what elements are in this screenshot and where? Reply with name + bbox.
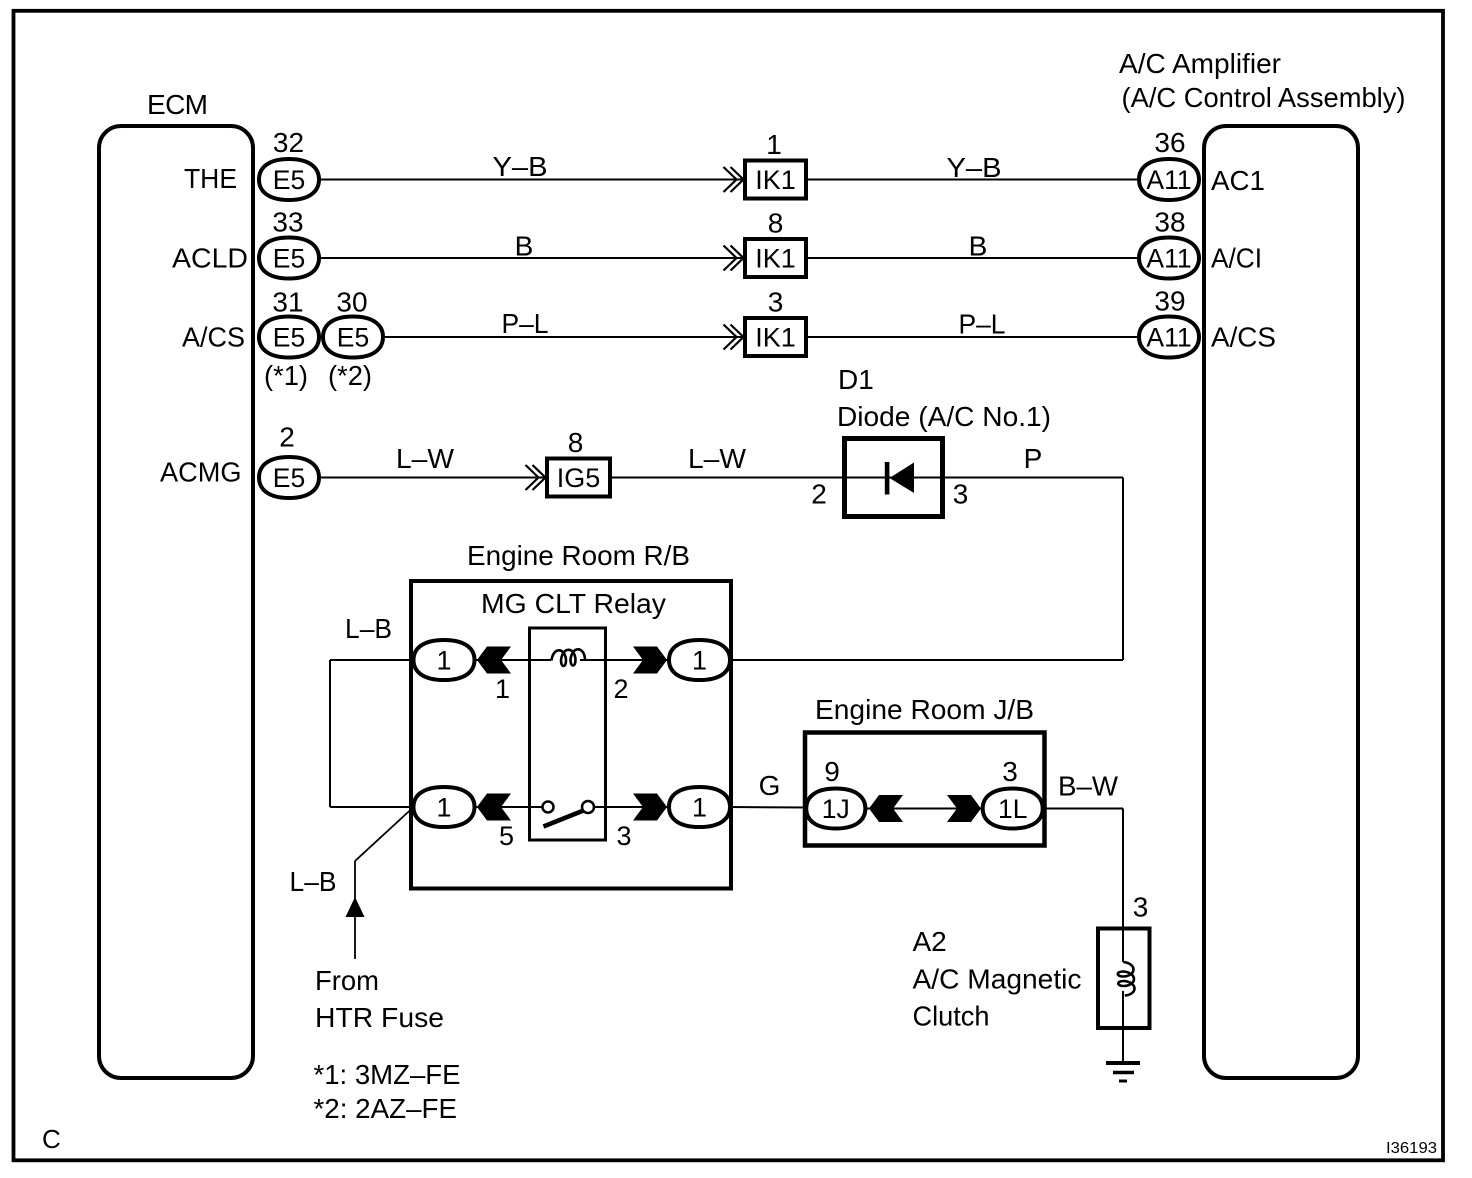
svg-text:33: 33 (272, 207, 303, 238)
wire IK1 to A11 row1 (806, 179, 1139, 181)
wire J/B internal 1J to 1L (865, 808, 983, 810)
relay oval 1 switch right (669, 787, 730, 827)
relay coil symbol (552, 649, 586, 666)
svg-text:A2: A2 (913, 926, 947, 957)
svg-text:HTR Fuse: HTR Fuse (315, 1002, 444, 1033)
svg-text:B: B (969, 231, 988, 262)
svg-text:Engine Room R/B: Engine Room R/B (467, 540, 690, 571)
svg-text:L–W: L–W (688, 443, 747, 474)
svg-text:31: 31 (272, 287, 303, 318)
solid arrow left (J/B, 1J side) (869, 795, 903, 822)
wire vertical P down to relay row (1122, 478, 1124, 661)
svg-text:36: 36 (1154, 127, 1185, 158)
svg-text:3: 3 (616, 821, 631, 851)
wire relay coil row internal left (474, 659, 551, 661)
svg-text:P–L: P–L (959, 309, 1006, 340)
svg-text:B: B (515, 231, 534, 262)
Engine Room J/B box (805, 733, 1045, 846)
svg-text:9: 9 (824, 756, 840, 787)
relay switch contact circle left (543, 802, 554, 813)
svg-text:38: 38 (1154, 207, 1185, 238)
svg-text:32: 32 (273, 127, 304, 158)
svg-text:3: 3 (768, 287, 784, 318)
svg-text:8: 8 (768, 208, 784, 239)
svg-text:A/CI: A/CI (1211, 243, 1262, 274)
svg-text:A11: A11 (1146, 165, 1191, 195)
svg-text:ECM: ECM (147, 89, 208, 120)
MG CLT relay inner box (530, 628, 606, 840)
relay oval 1 switch left (414, 787, 475, 827)
solid arrow right (relay switch row, pin 3) (633, 794, 667, 821)
wire diagonal from HTR fuse to relay pin 5 oval (355, 809, 412, 862)
connector E5 pin 33 oval (259, 238, 319, 279)
svg-text:Y–B: Y–B (493, 151, 548, 182)
wire THE to IK1 (319, 179, 745, 181)
svg-text:AC1: AC1 (1211, 165, 1265, 196)
chevron pair at IG5 (526, 465, 546, 490)
wire clutch coil to ground (1122, 991, 1124, 1063)
svg-text:Diode (A/C No.1): Diode (A/C No.1) (837, 401, 1051, 432)
svg-text:E5: E5 (273, 165, 305, 195)
svg-text:L–B: L–B (345, 613, 392, 644)
svg-text:2: 2 (613, 674, 628, 704)
ECM block (99, 126, 253, 1078)
svg-text:1J: 1J (822, 794, 850, 824)
J/B connector 1L oval (983, 789, 1043, 829)
svg-text:From: From (315, 965, 379, 996)
connector E5 pin 32 oval (259, 159, 319, 200)
arrow up from HTR fuse (346, 897, 365, 917)
svg-text:E5: E5 (273, 244, 305, 274)
wire L-B loop horizontal top (330, 659, 413, 661)
chevron pair at IK1 row1 (724, 167, 744, 192)
svg-text:IK1: IK1 (755, 323, 796, 353)
relay switch blade (544, 811, 584, 827)
svg-text:THE: THE (184, 163, 237, 194)
connector E5 pin 31 oval (259, 317, 319, 358)
J/B connector 1J oval (806, 789, 865, 829)
relay oval 1 coil right (669, 640, 730, 680)
svg-text:5: 5 (499, 821, 514, 851)
svg-text:B–W: B–W (1058, 771, 1119, 802)
relay switch contact circle right (582, 801, 594, 813)
wire relay coil row internal right (580, 659, 670, 661)
svg-text:*2: 2AZ–FE: *2: 2AZ–FE (314, 1093, 458, 1124)
diode symbol cathode bar (885, 462, 890, 495)
svg-text:A/CS: A/CS (1211, 322, 1276, 353)
wire vertical B-W down to clutch (1122, 809, 1124, 963)
svg-text:A11: A11 (1146, 244, 1191, 274)
wire relay to J/B (G) (729, 806, 806, 809)
chevron pair at IK1 row2 (724, 246, 744, 271)
svg-text:8: 8 (568, 427, 584, 458)
connector E5 pin 2 oval (259, 457, 319, 498)
svg-text:L–B: L–B (290, 866, 337, 897)
svg-text:30: 30 (336, 287, 367, 318)
svg-text:IK1: IK1 (755, 244, 796, 274)
svg-text:E5: E5 (273, 463, 305, 493)
svg-text:2: 2 (279, 422, 295, 453)
svg-text:E5: E5 (273, 323, 305, 353)
svg-text:G: G (759, 770, 781, 801)
svg-text:39: 39 (1154, 286, 1185, 317)
svg-text:P–L: P–L (502, 308, 549, 339)
svg-text:1: 1 (692, 646, 707, 676)
svg-text:A11: A11 (1146, 323, 1191, 353)
A/C amplifier block (1204, 126, 1358, 1078)
wire vertical below HTR arrow (354, 915, 356, 959)
wire ACMG to IG5 (319, 477, 547, 479)
clutch coil symbol (1118, 962, 1135, 996)
A/C magnetic clutch box (1098, 929, 1150, 1029)
junction connector IG5 box (547, 459, 610, 497)
svg-text:E5: E5 (337, 323, 369, 353)
svg-text:(*1): (*1) (264, 360, 308, 391)
svg-text:A/C Amplifier: A/C Amplifier (1119, 48, 1281, 79)
svg-text:1: 1 (495, 674, 510, 704)
svg-text:2: 2 (811, 479, 827, 510)
solid arrow left (relay switch row, pin 5) (477, 794, 511, 821)
wire IK1 to A11 row2 (806, 257, 1139, 259)
svg-text:ACMG: ACMG (160, 457, 242, 488)
svg-text:1L: 1L (998, 794, 1027, 824)
svg-text:1: 1 (692, 793, 707, 823)
solid arrow left (relay coil row, pin 1) (477, 647, 511, 674)
svg-text:3: 3 (1133, 892, 1149, 923)
diode symbol triangle (890, 463, 915, 494)
ground symbol (1106, 1063, 1140, 1081)
wire 1L to vertical (B-W) (1043, 808, 1123, 810)
wire IK1 to A11 row3 (806, 336, 1139, 338)
svg-text:D1: D1 (838, 364, 874, 395)
svg-text:Y–B: Y–B (947, 152, 1002, 183)
diode D1 box (845, 439, 943, 517)
connector E5 pin 30 oval (323, 317, 383, 358)
svg-text:Clutch: Clutch (913, 1001, 990, 1032)
svg-text:MG CLT Relay: MG CLT Relay (481, 588, 666, 619)
svg-text:3: 3 (1002, 756, 1018, 787)
junction connector IK1 row3 box (745, 318, 806, 356)
wire ACLD to IK1 (319, 257, 745, 259)
wire relay switch row internal left (474, 806, 542, 808)
wire relay coil output to vertical (729, 659, 1123, 661)
svg-text:C: C (42, 1124, 61, 1154)
svg-text:ACLD: ACLD (172, 243, 248, 274)
wire L-B loop horizontal bottom (330, 806, 413, 808)
svg-text:I36193: I36193 (1386, 1140, 1437, 1157)
svg-text:1: 1 (436, 793, 451, 823)
wire IG5 to diode and to right vertical (610, 477, 1123, 479)
connector A11 pin 36 oval (1139, 159, 1199, 200)
svg-text:1: 1 (436, 646, 451, 676)
connector A11 pin 39 oval (1139, 317, 1199, 358)
relay oval 1 coil left (414, 640, 475, 680)
Engine Room R/B box (411, 581, 731, 889)
svg-text:IK1: IK1 (755, 165, 796, 195)
svg-text:1: 1 (766, 129, 782, 160)
svg-text:(A/C Control Assembly): (A/C Control Assembly) (1122, 82, 1406, 113)
solid arrow right (relay coil row, pin 2) (633, 647, 667, 674)
wire L-B loop vertical (329, 660, 331, 807)
wire relay switch row internal right (594, 806, 670, 808)
svg-text:3: 3 (953, 479, 969, 510)
svg-text:Engine Room J/B: Engine Room J/B (815, 694, 1034, 725)
svg-text:P: P (1024, 443, 1043, 474)
svg-text:L–W: L–W (396, 443, 455, 474)
svg-text:A/CS: A/CS (182, 322, 245, 353)
svg-text:IG5: IG5 (557, 463, 601, 493)
junction connector IK1 row2 box (745, 239, 806, 277)
svg-text:(*2): (*2) (328, 360, 372, 391)
wire A/CS to IK1 (383, 336, 745, 338)
solid arrow right (J/B, 1L side) (947, 795, 981, 822)
junction connector IK1 row1 box (745, 161, 806, 199)
connector A11 pin 38 oval (1139, 238, 1199, 279)
chevron pair at IK1 row3 (724, 325, 744, 350)
wire vertical above HTR arrow (354, 861, 356, 899)
svg-text:A/C Magnetic: A/C Magnetic (913, 964, 1082, 995)
svg-text:*1: 3MZ–FE: *1: 3MZ–FE (314, 1059, 461, 1090)
